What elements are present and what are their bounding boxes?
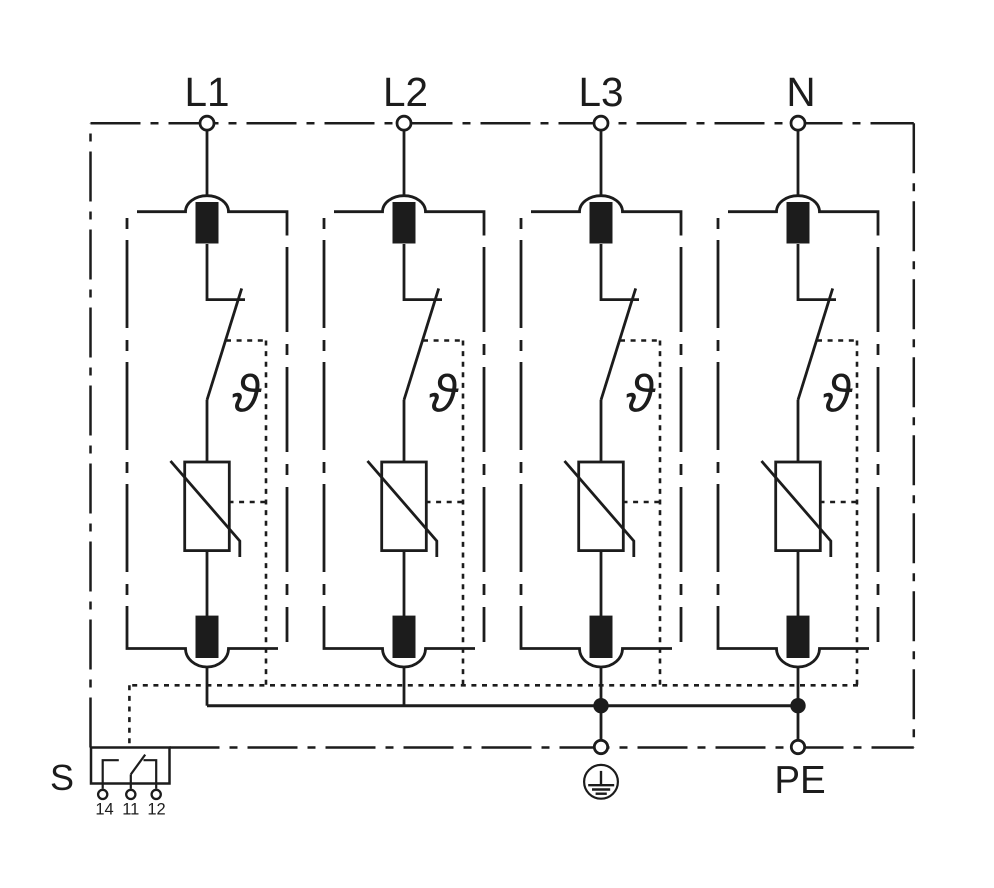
- svg-text:ϑ: ϑ: [429, 365, 459, 423]
- thermal monitor link (dotted) channel 3: [620, 341, 660, 686]
- plug-in contact bottom (module socket): [718, 627, 869, 667]
- wire bottom contact to PE bus: [403, 668, 406, 706]
- svg-text:12: 12: [147, 801, 165, 819]
- plug-in contact top (module socket): [531, 196, 681, 236]
- thermal monitor link (dotted) channel 1: [226, 341, 266, 686]
- plug-in contact bottom (module socket): [127, 627, 278, 667]
- terminal N: [791, 116, 805, 130]
- channel N protection path: [718, 131, 878, 741]
- plug-in contact top (module socket): [728, 196, 878, 236]
- plug contact pin top (black): [393, 202, 416, 244]
- varistor R3: [579, 462, 624, 551]
- protective earth symbol: [584, 765, 618, 799]
- terminal L3: [594, 116, 608, 130]
- plug contact pin top (black): [590, 202, 613, 244]
- plug contact pin bottom (black): [393, 616, 416, 658]
- dotted signalling bus to remote contact: [129, 685, 858, 747]
- varistor diagonal stroke: [368, 461, 437, 557]
- wire disconnector to varistor: [403, 400, 406, 462]
- changeover blade 11-12: [131, 755, 145, 775]
- module boundary left (dash-dot): [520, 218, 523, 627]
- wire bottom contact to PE bus: [206, 668, 209, 706]
- plug contact pin bottom (black): [196, 616, 219, 658]
- channel L2 protection path: [324, 131, 484, 706]
- varistor diagonal stroke: [171, 461, 240, 557]
- plug contact pin top (black): [787, 202, 810, 244]
- pin circle 11: [126, 790, 135, 799]
- svg-text:N: N: [786, 69, 815, 115]
- svg-text:L1: L1: [184, 69, 229, 115]
- thermal monitor link (dotted) channel 4: [817, 341, 857, 686]
- wire disconnector to varistor: [206, 400, 209, 462]
- module boundary left (dash-dot): [717, 218, 720, 627]
- wire disconnector to varistor: [797, 400, 800, 462]
- PE bus (solid): [207, 704, 798, 707]
- svg-text:ϑ: ϑ: [232, 365, 262, 423]
- wire N terminal to plug-in contact: [797, 131, 800, 198]
- module boundary left (dash-dot): [323, 218, 326, 627]
- channel L3 protection path: [521, 131, 681, 741]
- wire contact to disconnector: [601, 244, 639, 300]
- PE terminal circle: [791, 740, 804, 753]
- contact 11 (common): [130, 774, 132, 788]
- varistor R1: [185, 462, 230, 551]
- varistor diagonal stroke: [565, 461, 634, 557]
- thermal disconnector blade F1: [207, 288, 242, 400]
- wire L2 terminal to plug-in contact: [403, 131, 406, 198]
- thermal disconnector blade F3: [601, 288, 636, 400]
- plug contact pin bottom (black): [787, 616, 810, 658]
- varistor R2: [382, 462, 427, 551]
- module boundary right (dash-dot): [877, 247, 880, 642]
- plug-in contact bottom (module socket): [324, 627, 475, 667]
- plug-in contact top (module socket): [137, 196, 287, 236]
- plug contact pin top (black): [196, 202, 219, 244]
- wire varistor to bottom contact: [797, 551, 800, 616]
- wire disconnector to varistor: [600, 400, 603, 462]
- svg-text:14: 14: [95, 801, 113, 819]
- terminal L1: [200, 116, 214, 130]
- thermal monitor link (dotted) channel 2: [423, 341, 463, 686]
- thermal disconnector blade F4: [798, 288, 833, 400]
- wire L3 terminal to plug-in contact: [600, 131, 603, 198]
- outer frame (dash-dot boundary of device): [91, 123, 914, 747]
- plug contact pin bottom (black): [590, 616, 613, 658]
- wire contact to disconnector: [798, 244, 836, 300]
- svg-text:ϑ: ϑ: [626, 365, 656, 423]
- module boundary left (dash-dot): [126, 218, 129, 627]
- varistor R4: [776, 462, 821, 551]
- wire contact to disconnector: [207, 244, 245, 300]
- junction node N/PE: [790, 698, 805, 713]
- svg-text:S: S: [50, 757, 74, 798]
- junction node L3/PE: [593, 698, 608, 713]
- wire contact to disconnector: [404, 244, 442, 300]
- plug-in contact bottom (module socket): [521, 627, 672, 667]
- module boundary right (dash-dot): [680, 247, 683, 642]
- svg-text:L3: L3: [578, 69, 623, 115]
- contact 12 (NC): [144, 760, 157, 789]
- pin circle 12: [152, 790, 161, 799]
- wire bottom contact to PE bus: [600, 668, 603, 741]
- svg-text:ϑ: ϑ: [823, 365, 853, 423]
- terminal L2: [397, 116, 411, 130]
- pin circle 14: [98, 790, 107, 799]
- svg-text:PE: PE: [774, 759, 825, 802]
- plug-in contact top (module socket): [334, 196, 484, 236]
- contact 14 (NO): [103, 760, 119, 789]
- ground terminal circle: [594, 740, 607, 753]
- wire varistor to bottom contact: [206, 551, 209, 616]
- wire varistor to bottom contact: [600, 551, 603, 616]
- varistor diagonal stroke: [762, 461, 831, 557]
- remote signalling contact box S: [91, 748, 170, 784]
- module boundary right (dash-dot): [286, 247, 289, 642]
- thermal disconnector blade F2: [404, 288, 439, 400]
- channel L1 protection path: [127, 131, 287, 706]
- wire L1 terminal to plug-in contact: [206, 131, 209, 198]
- module boundary right (dash-dot): [483, 247, 486, 642]
- wire varistor to bottom contact: [403, 551, 406, 616]
- wire bottom contact to PE bus: [797, 668, 800, 741]
- svg-text:L2: L2: [383, 69, 428, 115]
- svg-text:11: 11: [122, 801, 139, 819]
- dotted drop to contact S: [128, 685, 131, 747]
